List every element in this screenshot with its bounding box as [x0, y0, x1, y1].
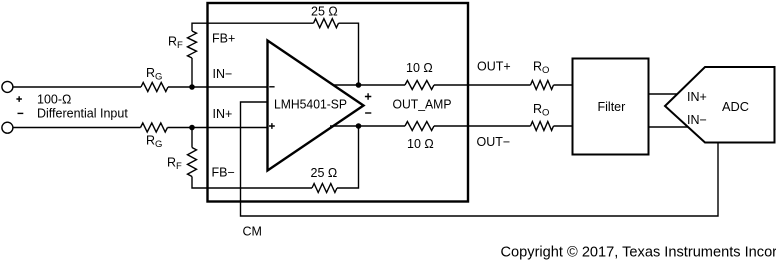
wire output+	[333, 84, 573, 86]
node IN+ junction	[189, 125, 195, 131]
pin mark - (output minus)	[365, 112, 371, 114]
svg-text:IN−: IN−	[213, 67, 233, 81]
resistor RG (top)	[141, 83, 168, 92]
svg-text:IN+: IN+	[213, 107, 233, 121]
svg-text:LMH5401-SP: LMH5401-SP	[274, 98, 347, 112]
wire FB- feedback bottom	[192, 126, 359, 188]
svg-text:Copyright © 2017, Texas Instru: Copyright © 2017, Texas Instruments Inco…	[501, 245, 776, 261]
resistor 25 Ohm (bottom feedback)	[312, 184, 337, 193]
label + (source plus)	[16, 96, 22, 102]
svg-text:FB−: FB−	[212, 166, 235, 180]
big box (LMH5401-SP EVM boundary)	[208, 3, 469, 202]
ADC block	[665, 67, 775, 143]
resistor RF (top)	[188, 31, 197, 58]
svg-text:FB+: FB+	[212, 32, 235, 46]
resistor 10 Ohm (top)	[405, 81, 434, 90]
label - (source minus)	[18, 112, 24, 114]
wire FB+ feedback top	[192, 23, 359, 85]
svg-text:CM: CM	[243, 225, 262, 239]
svg-text:10 Ω: 10 Ω	[406, 61, 433, 75]
svg-text:Filter: Filter	[598, 100, 626, 114]
filter block	[573, 59, 649, 155]
pin mark - (inverting input)	[269, 86, 274, 88]
wire filter to ADC IN+	[649, 93, 679, 95]
svg-text:25 Ω: 25 Ω	[311, 4, 338, 18]
wire CM	[241, 102, 719, 216]
wire output-	[330, 125, 573, 127]
resistor 10 Ohm (bottom)	[405, 122, 434, 131]
resistor RG (bottom)	[141, 123, 168, 132]
input port N (bottom, -)	[2, 122, 13, 133]
wire RF top lead	[191, 58, 193, 87]
svg-text:OUT_AMP: OUT_AMP	[393, 98, 452, 112]
svg-text:25 Ω: 25 Ω	[311, 166, 338, 180]
pin mark + (output plus)	[365, 93, 371, 99]
pin mark + (noninverting input)	[269, 123, 275, 129]
wire filter to ADC IN-	[649, 126, 689, 128]
wire top input left	[14, 86, 142, 88]
svg-text:OUT+: OUT+	[477, 60, 511, 74]
node IN- junction	[189, 84, 195, 90]
resistor RO (top)	[531, 81, 554, 90]
svg-text:ADC: ADC	[722, 100, 749, 114]
resistor 25 Ohm (top feedback)	[314, 19, 339, 28]
wire RF bottom lead	[191, 128, 193, 148]
svg-text:OUT−: OUT−	[477, 135, 511, 149]
resistor RO (bottom)	[531, 122, 554, 131]
svg-text:IN+: IN+	[687, 90, 707, 104]
node output+ junction	[356, 82, 362, 88]
svg-text:100-Ω: 100-Ω	[37, 93, 71, 107]
svg-text:Differential Input: Differential Input	[37, 107, 128, 121]
wire top input right	[168, 86, 268, 88]
input port P (top, +)	[2, 81, 13, 92]
wire bottom input right	[168, 127, 268, 129]
resistor RF (bottom)	[188, 148, 197, 177]
svg-text:IN−: IN−	[687, 113, 707, 127]
op-amp U1 LMH5401-SP	[268, 41, 364, 171]
svg-text:10 Ω: 10 Ω	[407, 137, 434, 151]
node output- junction	[356, 123, 362, 129]
wire bottom input left	[14, 127, 141, 129]
